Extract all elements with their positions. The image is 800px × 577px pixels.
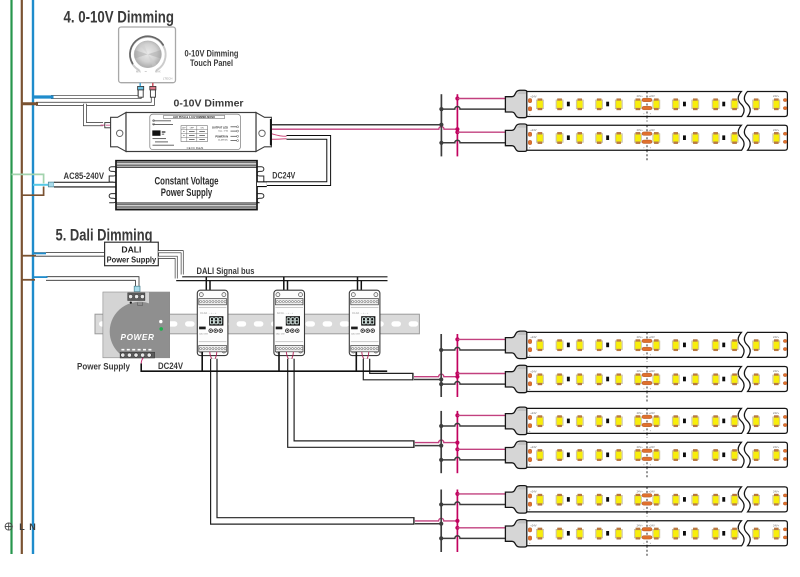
- wire N to touch panel: [33, 90, 140, 97]
- cable DC24V output: [257, 181, 267, 187]
- wire DALI bus drop to module 3: [358, 277, 362, 300]
- node junction pair CD plus: [455, 411, 459, 473]
- wire DALI bus drop to module 1: [206, 277, 210, 300]
- svg-text:CE FC RoHS: CE FC RoHS: [187, 146, 204, 150]
- wire feed plus pair AB: [414, 374, 457, 377]
- wire feed minus pair EF: [415, 523, 441, 525]
- wire earth bus (green): [10, 0, 12, 554]
- power supply PS2 (POWER): [103, 292, 170, 361]
- wire module 1 DC feed: [201, 352, 203, 371]
- DALI dimmer module U3: [274, 290, 305, 355]
- LED strip row F: [505, 520, 787, 557]
- wire module 1 output pigtails: [210, 352, 217, 361]
- touch panel connector stubs: [138, 83, 156, 97]
- svg-text:max. 1*10: max. 1*10: [218, 130, 229, 132]
- wire mains to POWER psu: [22, 277, 140, 292]
- LED strip row B: [505, 365, 787, 402]
- LED strip row 1: [505, 90, 787, 121]
- node junction top pair minus: [439, 94, 443, 156]
- svg-text:ON: ON: [201, 127, 205, 129]
- touch panel U-panel: [119, 27, 176, 83]
- svg-text:12-48VDC: 12-48VDC: [218, 140, 229, 142]
- wire module 2 output pigtails: [286, 352, 293, 361]
- node junction pair AB plus: [455, 334, 459, 397]
- wire strip A plus: [457, 338, 505, 340]
- svg-text:DA DA · − + − +: DA DA · − + − +: [277, 312, 294, 315]
- svg-text:POWER IN: POWER IN: [215, 135, 228, 138]
- svg-text:OUTPUT LED: OUTPUT LED: [212, 126, 228, 129]
- svg-text:POWER: POWER: [121, 333, 155, 342]
- wire strip1 plus: [457, 98, 505, 100]
- svg-text:MIN: MIN: [136, 69, 141, 73]
- LED strip row 2: [505, 124, 787, 162]
- svg-text:DIP: DIP: [182, 127, 186, 129]
- svg-text:DA DA · − + − +: DA DA · − + − +: [352, 312, 369, 315]
- svg-text:DALI: DALI: [121, 244, 141, 254]
- node earth label: [5, 523, 12, 530]
- svg-text:Touch Panel: Touch Panel: [190, 58, 233, 69]
- wire dimmer output LED-: [272, 124, 441, 126]
- wire DALI bus drop to module 2: [284, 277, 288, 300]
- svg-text:0-10V Dimmer: 0-10V Dimmer: [174, 99, 244, 110]
- wire DALI PS to bus line 1: [158, 252, 182, 275]
- svg-text:DC24V: DC24V: [272, 171, 296, 181]
- wire L to touch panel: [22, 98, 153, 104]
- node junction pair EF minus: [439, 490, 443, 553]
- wire strip B minus: [441, 382, 506, 385]
- LED strip row A: [505, 331, 787, 362]
- cable DC24V loop to power supply: [267, 137, 329, 183]
- svg-text:Power Supply: Power Supply: [107, 255, 157, 265]
- svg-text:MAX: MAX: [155, 69, 161, 73]
- DALI dimmer module U4: [349, 290, 380, 355]
- svg-text:DA DA · − + − +: DA DA · − + − +: [200, 312, 217, 315]
- wire DC24V distribution: [141, 358, 387, 371]
- wire L bus (brown): [21, 0, 23, 554]
- wire N bus (blue): [32, 0, 34, 554]
- LED strip row E: [505, 486, 787, 517]
- wire dimmer output LED+: [272, 127, 457, 130]
- power supply PS1 body: [109, 161, 264, 210]
- wire strip F plus: [457, 527, 505, 529]
- wire feed plus pair EF: [415, 518, 458, 521]
- wire strip C minus: [441, 423, 506, 426]
- LED strip row C: [505, 407, 787, 438]
- svg-text:DALI DIM: DALI DIM: [276, 332, 285, 335]
- wire strip2 plus: [457, 131, 505, 133]
- op-amp/dimmer U1 body: [111, 113, 272, 152]
- DALI dimmer module U2: [197, 290, 228, 355]
- svg-text:4. 0-10V Dimming: 4. 0-10V Dimming: [64, 8, 175, 27]
- node junction pair AB minus: [439, 334, 443, 397]
- cable module2 to pair CD: [291, 359, 415, 448]
- wire strip2 minus: [441, 140, 505, 143]
- wire DALI PS to bus line 2: [158, 257, 176, 278]
- svg-text:DALI DIM: DALI DIM: [199, 332, 208, 335]
- wire strip E minus: [441, 502, 506, 505]
- wire strip1 minus: [441, 106, 505, 109]
- svg-text:L: L: [19, 522, 25, 532]
- svg-text:LED PUSH & 1-10V DIMMER-MONO: LED PUSH & 1-10V DIMMER-MONO: [173, 116, 215, 119]
- cable module3 to pair AB: [367, 359, 414, 381]
- svg-text:AC85-240V: AC85-240V: [64, 171, 105, 181]
- cable module1 to pair EF: [214, 359, 415, 525]
- node junction top pair plus: [455, 94, 459, 156]
- wire strip E plus: [457, 493, 505, 495]
- wire mains to DALI power supply: [22, 253, 105, 255]
- svg-text:DALI Signal bus: DALI Signal bus: [197, 266, 255, 276]
- AC input branch wires: [12, 174, 55, 195]
- svg-text:Constant Voltage: Constant Voltage: [155, 175, 219, 187]
- DIN rail: [95, 314, 419, 334]
- LED strip row D: [505, 441, 787, 478]
- wire strip D plus: [457, 448, 505, 450]
- svg-text:Power Supply: Power Supply: [161, 187, 213, 199]
- wire dim signal to dimmer input: [85, 104, 103, 124]
- wire feed plus pair CD: [415, 440, 458, 443]
- svg-text:LTECH: LTECH: [163, 77, 173, 81]
- wire dimmer power pigtails: [272, 134, 287, 139]
- svg-text:DC24V: DC24V: [158, 361, 184, 371]
- wire strip A minus: [441, 347, 506, 350]
- wire feed minus pair CD: [415, 445, 441, 447]
- node junction pair EF plus: [455, 490, 459, 553]
- svg-text:•••: •••: [145, 71, 148, 74]
- wire strip B plus: [457, 373, 505, 375]
- svg-text:Power Supply: Power Supply: [77, 362, 131, 372]
- wire module 2 DC feed: [278, 352, 280, 371]
- DALI power supply box: [105, 242, 159, 266]
- wire DALI bus line A: [182, 276, 387, 278]
- cable AC input: [54, 182, 116, 188]
- wire feed minus pair AB: [414, 379, 441, 381]
- svg-text:DALI DIM: DALI DIM: [351, 332, 360, 335]
- wire strip C plus: [457, 414, 505, 416]
- wire module 3 DC feed: [355, 352, 357, 371]
- dimmer U1 input plug: [101, 122, 120, 143]
- svg-text:OFF: OFF: [190, 127, 195, 129]
- wire DALI bus line B: [176, 280, 387, 282]
- node junction pair CD minus: [439, 411, 443, 473]
- wire strip D minus: [441, 457, 506, 460]
- wire strip F minus: [441, 536, 506, 539]
- svg-text:N: N: [29, 522, 36, 532]
- wire module 3 output pigtails: [362, 352, 369, 361]
